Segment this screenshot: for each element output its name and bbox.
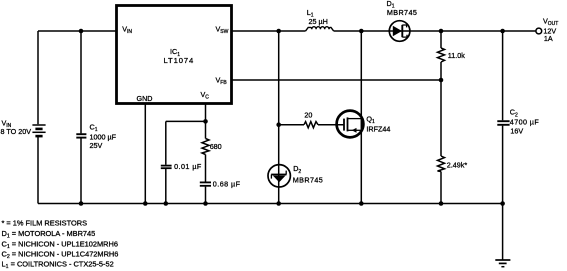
svg-text:GND: GND	[137, 94, 153, 103]
svg-text:LT1074: LT1074	[164, 56, 195, 65]
svg-text:1A: 1A	[544, 34, 553, 43]
svg-text:MBR745: MBR745	[293, 176, 323, 185]
svg-text:16V: 16V	[510, 126, 523, 135]
svg-text:25 µH: 25 µH	[309, 17, 328, 26]
svg-text:IRFZ44: IRFZ44	[366, 124, 390, 133]
svg-text:8 TO 20V: 8 TO 20V	[1, 127, 32, 136]
svg-text:* = 1% FILM RESISTORS: * = 1% FILM RESISTORS	[2, 219, 88, 228]
svg-text:MBR745: MBR745	[387, 8, 417, 17]
svg-text:4700 µF: 4700 µF	[510, 117, 540, 126]
svg-text:680: 680	[210, 142, 222, 151]
svg-text:25V: 25V	[90, 141, 103, 150]
svg-text:0.01 µF: 0.01 µF	[174, 162, 202, 171]
svg-text:2.49k*: 2.49k*	[447, 160, 468, 169]
svg-text:11.0k: 11.0k	[448, 51, 465, 60]
svg-text:C1 = NICHICON - UPL1E102MRH6: C1 = NICHICON - UPL1E102MRH6	[2, 239, 118, 250]
svg-text:20: 20	[304, 110, 312, 119]
svg-text:0.68 µF: 0.68 µF	[213, 180, 241, 189]
